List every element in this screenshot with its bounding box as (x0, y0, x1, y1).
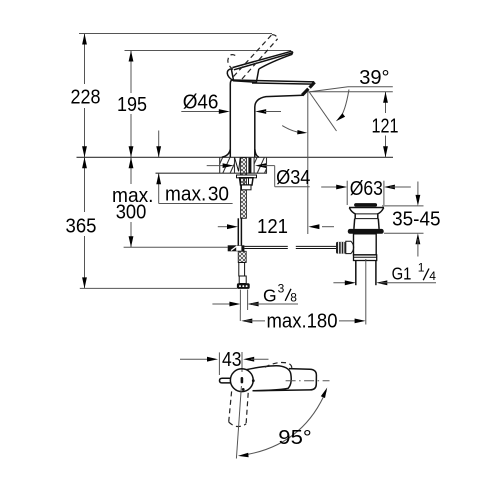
extension lines G3/8 (240, 290, 247, 310)
hose segment (239, 263, 245, 277)
mounting shank cone (235, 158, 241, 172)
drain upper body (354, 214, 379, 229)
label 39° (348, 66, 393, 89)
svg-text:1: 1 (418, 261, 425, 275)
svg-text:121: 121 (257, 215, 288, 238)
reducer (242, 185, 252, 190)
top view pivot mark (241, 377, 244, 383)
extension line 195 ref (125, 50, 292, 52)
svg-text:max.180: max.180 (267, 310, 338, 333)
arc 39° (336, 90, 349, 122)
mounting nut (240, 178, 254, 185)
svg-text:39°: 39° (359, 66, 389, 89)
dimension 121 (height) (372, 92, 399, 158)
stream direction line (309, 92, 337, 131)
svg-text:Ø63: Ø63 (350, 177, 383, 200)
svg-text:G: G (263, 286, 277, 306)
svg-text:8: 8 (290, 291, 297, 305)
leader 39° to spout (310, 87, 348, 92)
swung centerline (236, 386, 241, 459)
hose segment 2 (239, 276, 246, 284)
hose braid lower (238, 251, 246, 262)
handle lever (closed position) (232, 51, 292, 70)
top view rod tab (220, 378, 231, 383)
dimension G1 1/4 (333, 261, 436, 286)
drain knob knurled (336, 242, 346, 254)
dimension 121 (projection) (218, 215, 334, 238)
drain side port (346, 241, 354, 253)
dimension 35-45 (382, 182, 441, 257)
countertop deck bottom line (156, 172, 268, 174)
dimension Ø63 (321, 177, 411, 205)
arc 95° (238, 388, 327, 458)
deck hatching right (254, 157, 266, 173)
mounting shank braided (241, 158, 247, 219)
faucet aerator face (302, 82, 314, 95)
handle base wedge (227, 69, 259, 82)
svg-text:max. 30: max. 30 (165, 183, 229, 206)
extension line spout tip vertical (307, 92, 309, 234)
label 95° (278, 426, 311, 449)
top view dots (242, 379, 255, 390)
spout swung dashed (229, 391, 249, 426)
drain centerline (365, 259, 367, 325)
centerline dash-dot (286, 380, 330, 382)
pop-up rod horizontal (244, 246, 336, 248)
rod clamp (228, 245, 245, 251)
handle lever raised (dashed) (228, 35, 278, 79)
svg-text:G1: G1 (392, 264, 412, 284)
drain plug cap (354, 203, 377, 207)
mounting bolt (248, 158, 251, 174)
countertop deck top line (77, 156, 394, 158)
G3/8 connector nut (237, 283, 250, 289)
dimension 43 (180, 348, 269, 375)
dimension max. 300 (112, 157, 228, 247)
dimension max. 30 (156, 131, 232, 206)
reference line spout tip level (308, 91, 393, 93)
faucet spout top edge (232, 80, 314, 84)
svg-text:300: 300 (116, 200, 147, 223)
svg-text:35-45: 35-45 (392, 208, 440, 231)
pop-up rod vertical (238, 218, 241, 245)
deck hatching left (220, 157, 235, 173)
extension line top (228 ref) (79, 33, 272, 35)
svg-text:365: 365 (66, 215, 97, 238)
svg-text:Ø46: Ø46 (183, 90, 219, 113)
drain tailpipe (356, 261, 376, 286)
drain body (354, 234, 377, 255)
top view body circle (230, 369, 253, 392)
dimension max.180 (240, 310, 365, 333)
dimension 365 (66, 157, 238, 288)
top view lever outline (246, 366, 291, 391)
arrow to spout extension (282, 126, 307, 135)
svg-text:195: 195 (117, 93, 147, 116)
svg-text:Ø34: Ø34 (276, 166, 310, 189)
top view dashed arc raised (265, 362, 292, 371)
svg-text:95°: 95° (278, 426, 311, 449)
dimension 228 (71, 34, 101, 158)
svg-text:4: 4 (429, 269, 436, 283)
drain collar (354, 255, 377, 261)
svg-text:121: 121 (372, 115, 399, 138)
drain flange (349, 208, 384, 214)
label Ø46 (181, 90, 281, 114)
top view spout barrel (254, 369, 317, 391)
svg-text:43: 43 (222, 348, 242, 371)
drain gasket ring (348, 229, 384, 234)
svg-text:3: 3 (278, 282, 285, 296)
svg-text:228: 228 (71, 86, 101, 109)
faucet body outline (222, 80, 303, 157)
dimension 195 (117, 51, 147, 158)
washer (237, 175, 257, 178)
dimension G3/8 (212, 282, 298, 307)
dimension Ø34 (207, 163, 311, 189)
